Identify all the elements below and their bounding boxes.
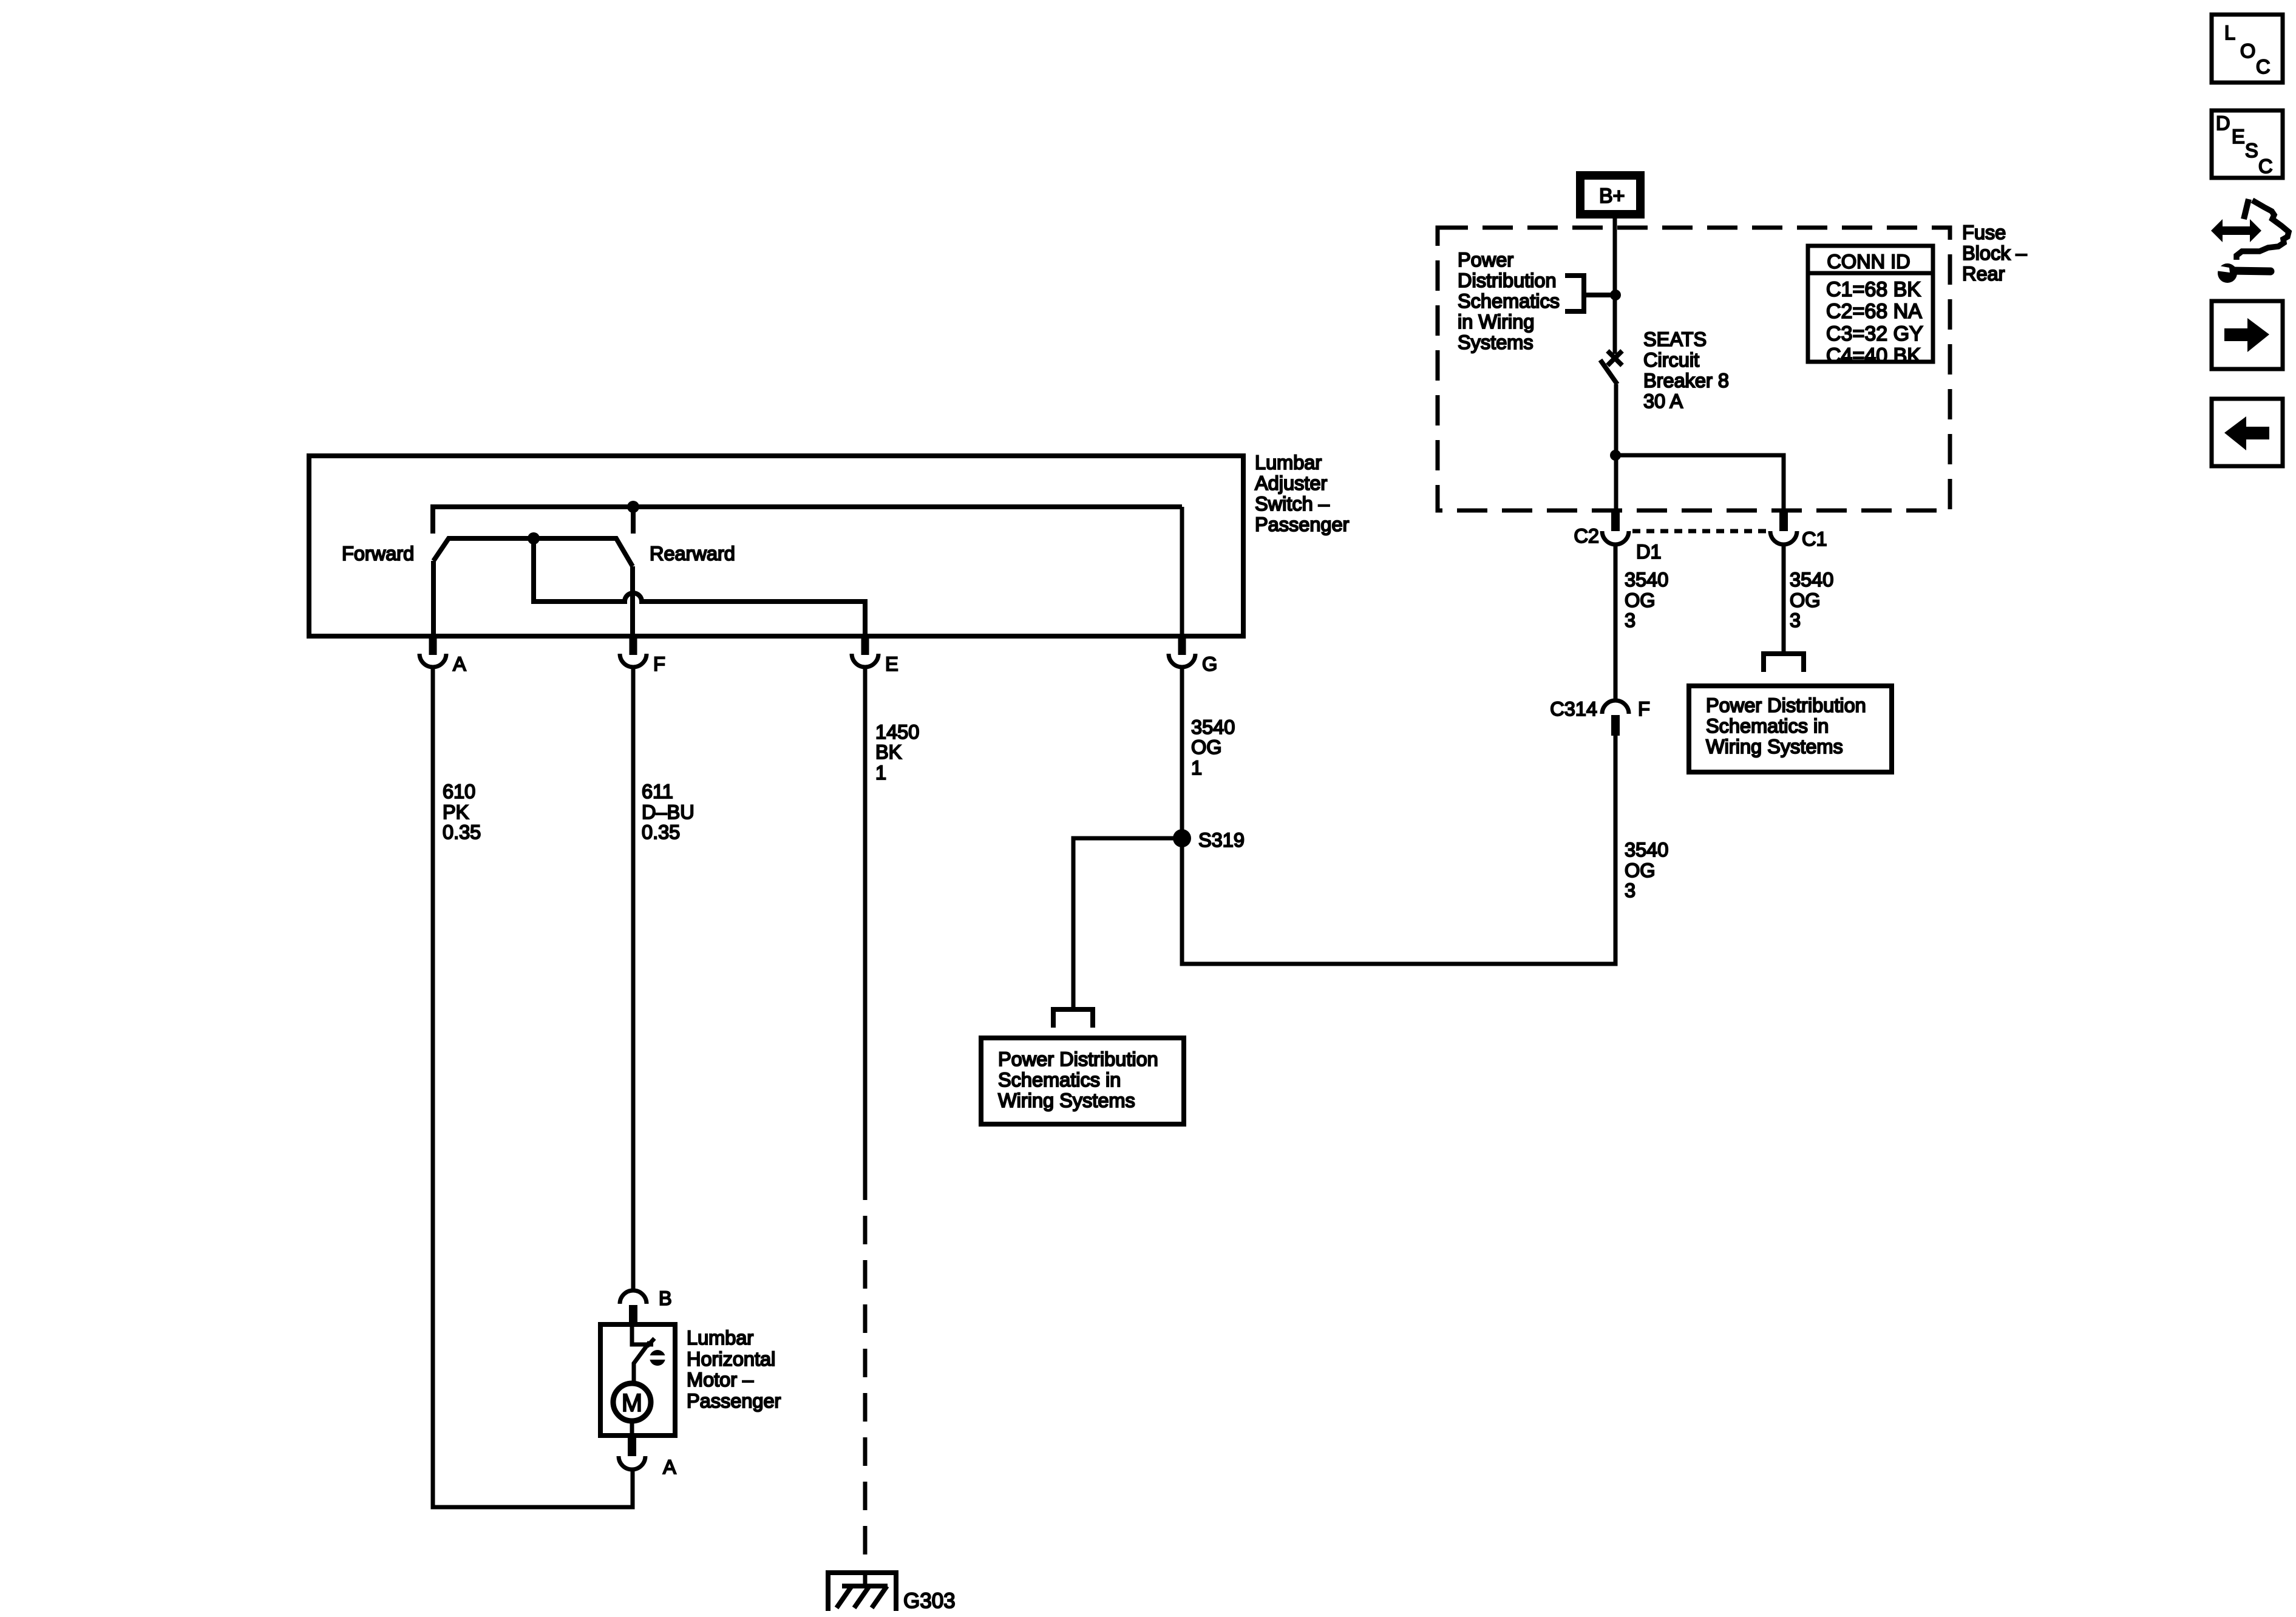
node: breaker out junction [1610,450,1621,461]
pin A connector arc [419,654,446,667]
wire 611 D-BU 0.35: pin F down to motor pin B [631,667,636,1290]
motor internal blade tip [647,1338,654,1346]
svg-text:Breaker 8: Breaker 8 [1643,370,1729,392]
node: blade center junction [528,532,540,544]
svg-text:F: F [1638,698,1650,720]
icon: LOC box [2212,15,2283,83]
svg-text:C314: C314 [1550,698,1597,720]
B+ box [1580,175,1640,214]
connector C2 arc [1602,531,1629,544]
svg-text:SEATS: SEATS [1643,328,1707,350]
icon: left arrow [2224,416,2269,450]
svg-text:3: 3 [1625,880,1635,901]
svg-text:Lumbar: Lumbar [1255,452,1322,473]
svg-text:O: O [2240,40,2255,62]
svg-text:S319: S319 [1198,829,1245,851]
svg-text:OG: OG [1625,859,1656,881]
svg-text:C: C [2256,56,2270,78]
svg-text:3: 3 [1790,609,1801,631]
svg-text:30 A: 30 A [1643,390,1683,412]
svg-text:OG: OG [1625,589,1656,611]
svg-text:B+: B+ [1599,185,1625,208]
svg-text:PK: PK [443,801,469,823]
svg-text:OG: OG [1790,589,1821,611]
svg-text:A: A [663,1456,676,1478]
wire: switch common top bus [433,504,1182,509]
motor pin A stub [628,1436,636,1456]
ground G303 symbol [828,1573,896,1611]
wire 3540 OG 3: C2 pin D1 down to C314 [1614,544,1618,700]
bracket: power distribution schematics tap [1565,276,1584,311]
svg-text:3540: 3540 [1790,569,1833,591]
svg-text:C2=68 NA: C2=68 NA [1826,300,1922,323]
SEATS circuit breaker blade [1600,360,1617,384]
svg-text:D–BU: D–BU [642,801,695,823]
svg-text:Power Distribution: Power Distribution [1706,694,1866,716]
svg-text:Lumbar: Lumbar [687,1327,753,1349]
svg-text:Switch –: Switch – [1255,493,1330,515]
node S319 [1173,829,1191,847]
Power Distribution box (right) [1689,686,1892,772]
svg-text:611: 611 [642,781,673,802]
motor circle [613,1383,651,1421]
svg-text:Schematics in: Schematics in [1706,715,1829,737]
connector C2 stub [1611,510,1620,531]
svg-text:Block –: Block – [1962,242,2028,264]
svg-text:C1=68 BK: C1=68 BK [1826,278,1921,301]
svg-text:3: 3 [1625,609,1635,631]
off-page claw under C1 [1764,654,1804,672]
svg-text:CONN ID: CONN ID [1827,251,1910,273]
svg-text:Power: Power [1458,249,1513,271]
svg-text:Passenger: Passenger [687,1390,781,1412]
wire: blade to pin F [630,566,635,636]
svg-text:A: A [453,653,466,675]
pin E stub [861,634,869,655]
wire: breaker to C2 junction [1614,384,1618,510]
wire: forward contact stub [430,504,435,534]
svg-text:1: 1 [1191,757,1202,779]
svg-text:Passenger: Passenger [1255,514,1350,535]
wire 3540 OG 3: C1 down to claw [1782,544,1786,652]
svg-text:C2: C2 [1574,525,1599,547]
switch blade Forward/Rearward [433,538,633,566]
svg-text:Schematics in: Schematics in [998,1069,1121,1091]
svg-text:1: 1 [875,762,886,784]
node: power distribution tap [1610,290,1621,300]
svg-text:Horizontal: Horizontal [687,1348,775,1370]
motor pin B stub [629,1305,637,1326]
connector C314 arc [1602,700,1629,714]
svg-text:Forward: Forward [342,543,414,564]
svg-text:0.35: 0.35 [642,821,680,843]
off-page claw under S319 branch [1053,1009,1093,1028]
pin A stub [429,634,437,655]
icon: left arrow box [2212,399,2283,466]
wire: junction across and down to C1 [1615,455,1784,510]
motor internal thermal blade [634,1342,650,1384]
svg-text:G303: G303 [903,1589,956,1613]
svg-text:1450: 1450 [875,721,919,743]
motor thermal symbol (circled minus) [650,1350,665,1366]
svg-text:Rear: Rear [1962,263,2005,285]
pin G stub [1178,634,1186,655]
svg-text:3540: 3540 [1625,569,1668,591]
CONN ID table [1808,246,1933,362]
svg-text:Schematics: Schematics [1458,290,1560,312]
Lumbar Adjuster Switch - Passenger box [309,456,1243,636]
svg-text:Wiring Systems: Wiring Systems [1706,736,1843,758]
motor internal feed wire [632,1327,653,1344]
Lumbar Horizontal Motor box [600,1324,675,1436]
svg-text:3540: 3540 [1625,839,1668,861]
pin F connector arc [620,654,647,667]
dashed connector face C2-C1 [1632,529,1768,534]
svg-text:F: F [653,653,665,675]
wire: blade center branch to pin E with crossover hump [534,538,865,636]
svg-text:OG: OG [1191,736,1222,758]
svg-text:C: C [2258,155,2272,177]
svg-text:BK: BK [875,741,902,763]
svg-text:Wiring Systems: Wiring Systems [998,1090,1135,1111]
svg-text:C1: C1 [1802,528,1827,550]
svg-text:3540: 3540 [1191,716,1235,738]
node: rearward stub junction [627,501,639,513]
svg-text:Rearward: Rearward [650,543,735,564]
motor pin B connector arc [620,1290,647,1304]
connector C1 stub [1779,510,1788,531]
pin F stub [630,634,637,655]
wire: G drop inside switch box [1180,507,1184,636]
connector C314 stub [1611,715,1620,736]
svg-text:Fuse: Fuse [1962,222,2006,243]
svg-text:Distribution: Distribution [1458,269,1557,291]
svg-text:B: B [659,1287,672,1309]
svg-text:C4=40 BK: C4=40 BK [1826,344,1921,367]
wire: blade to pin A [431,561,436,636]
SEATS circuit breaker contact X [1608,351,1622,365]
icon: right arrow [2224,318,2269,352]
icon: double arrow with connector outline and wrench [2211,199,2289,283]
pin E connector arc [852,654,878,667]
wire 3540 OG 1: pin G down to S319 and on to corner [1182,667,1615,964]
wire 1450 BK 1: pin E down (solid part) [863,667,868,1200]
svg-text:0.35: 0.35 [443,821,481,843]
connector C1 arc [1770,531,1797,544]
svg-text:M: M [622,1389,642,1417]
svg-text:C3=32 GY: C3=32 GY [1826,322,1923,345]
Fuse Block - Rear dashed outline [1438,228,1950,510]
svg-text:610: 610 [443,781,475,802]
svg-text:Power Distribution: Power Distribution [998,1048,1158,1070]
wire: S319 branch left and down [1073,838,1182,1008]
svg-text:Systems: Systems [1458,331,1533,353]
svg-text:Adjuster: Adjuster [1255,472,1327,494]
wire 610 PK 0.35: pin A down and across to motor pin A [433,667,633,1507]
svg-text:D: D [2216,112,2230,134]
Power Distribution box (lower) [981,1038,1184,1124]
svg-text:E: E [2232,126,2245,147]
svg-text:S: S [2245,140,2258,161]
icon: DESC box [2212,110,2283,178]
svg-text:Circuit: Circuit [1643,349,1699,371]
pin G connector arc [1169,654,1195,667]
wire 1450 BK 1 dashed part to G303 [863,1216,868,1587]
svg-text:Motor –: Motor – [687,1369,754,1391]
svg-text:in Wiring: in Wiring [1458,311,1534,333]
motor pin A connector arc [619,1456,645,1470]
svg-text:L: L [2224,22,2235,44]
svg-text:E: E [885,653,898,675]
wire: B+ down to breaker [1613,219,1617,354]
svg-text:D1: D1 [1636,541,1662,563]
motor bottom wire [630,1421,634,1436]
icon: right arrow box [2212,301,2283,369]
svg-text:G: G [1202,653,1217,675]
wire: rearward contact stub [631,507,636,534]
